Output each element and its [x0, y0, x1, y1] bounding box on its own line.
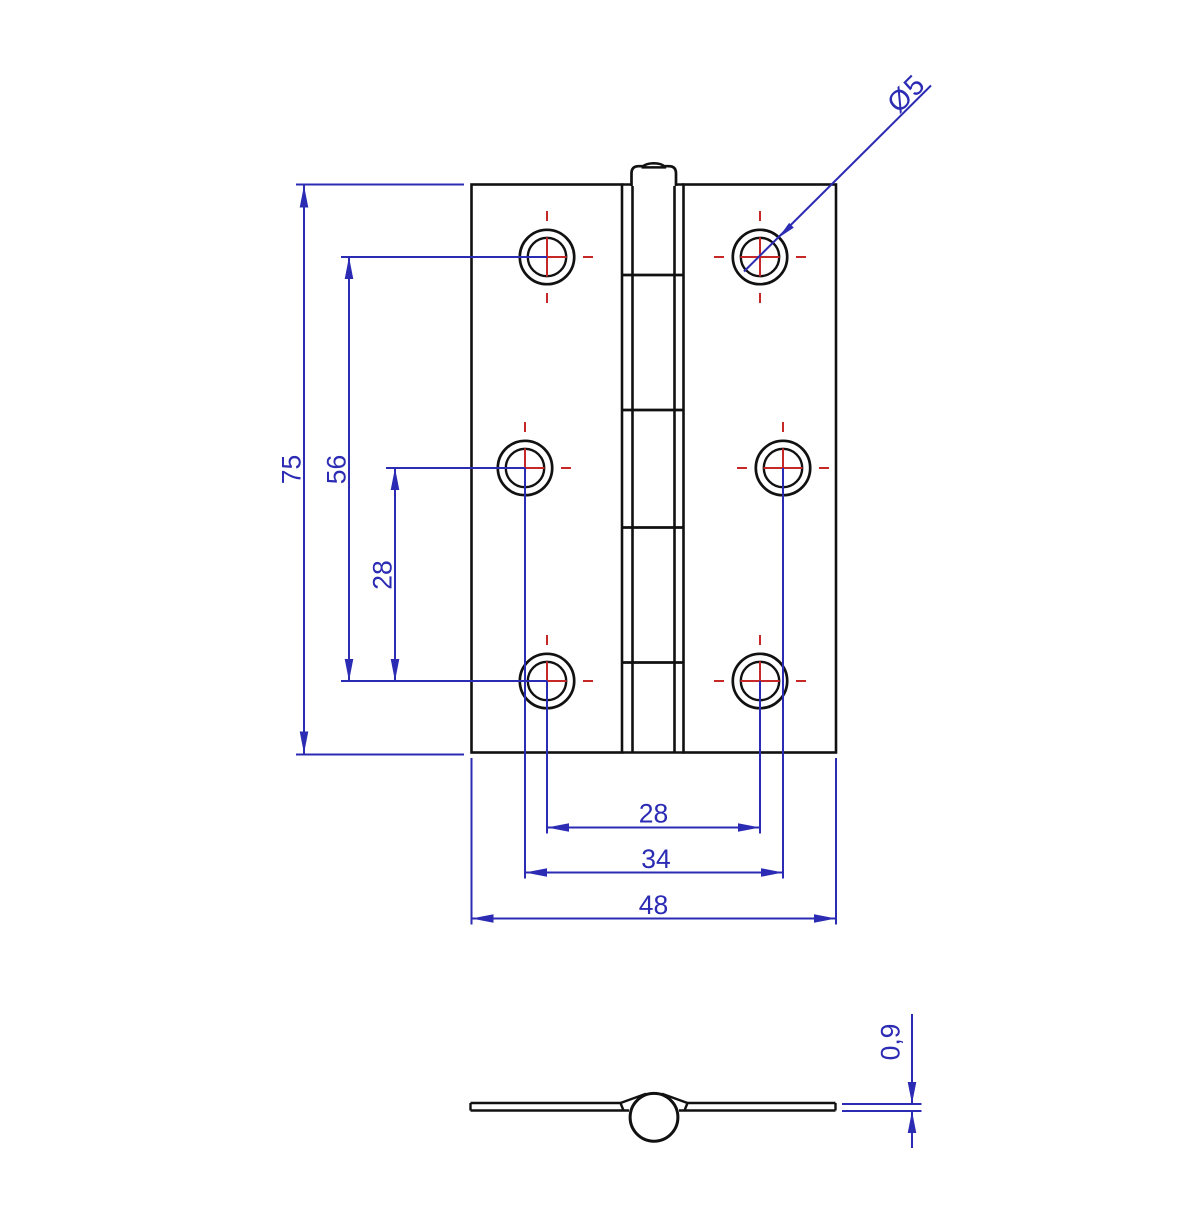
center mark H1	[501, 211, 593, 303]
pin cap	[632, 163, 677, 186]
knuckle bottom edge	[622, 751, 684, 754]
right leaf	[684, 185, 837, 753]
dimension 28 horizontal	[547, 681, 760, 834]
svg-text:56: 56	[322, 455, 352, 484]
dimension 28 vertical	[386, 468, 525, 681]
side view left leaf	[471, 1094, 647, 1111]
svg-text:48: 48	[639, 890, 668, 920]
center mark H2	[714, 211, 806, 303]
center mark H5	[501, 635, 593, 727]
knuckle joint line 3	[622, 526, 684, 529]
svg-text:75: 75	[277, 455, 307, 484]
dimension 34	[525, 468, 783, 879]
leader Ø5	[744, 68, 932, 271]
center mark H4	[737, 422, 829, 514]
dimension 75	[296, 185, 464, 755]
center mark H3	[479, 422, 571, 514]
dimension 56	[341, 257, 547, 681]
knuckle joint line 4	[622, 661, 684, 664]
screw hole H5 bottom-left	[520, 654, 574, 708]
svg-text:28: 28	[639, 799, 668, 829]
screw hole H2 top-right	[733, 230, 787, 284]
screw hole H6 bottom-right	[733, 654, 787, 708]
hinge pin barrel	[633, 185, 675, 753]
screw hole H1 top-left	[520, 230, 574, 284]
side view knuckle	[630, 1093, 678, 1141]
screw hole H4 mid-right	[756, 441, 810, 495]
svg-text:0,9: 0,9	[876, 1024, 906, 1061]
side view right leaf	[662, 1094, 836, 1111]
screw hole H3 mid-left	[498, 441, 552, 495]
left leaf	[472, 185, 623, 753]
center mark H6	[714, 635, 806, 727]
svg-text:28: 28	[368, 560, 398, 589]
knuckle joint line 2	[622, 409, 684, 412]
knuckle joint line 1	[622, 274, 684, 277]
dimension 48	[472, 758, 837, 925]
dimension 0,9	[842, 1014, 922, 1148]
svg-text:34: 34	[641, 844, 670, 874]
knuckle top edge	[622, 183, 684, 186]
